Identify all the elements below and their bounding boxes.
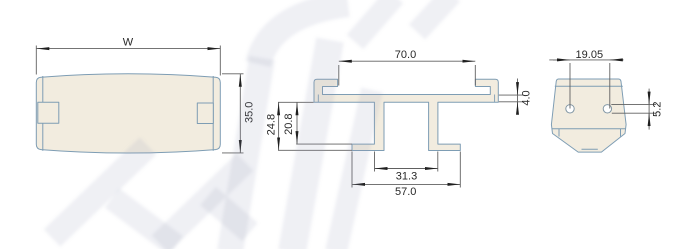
dimension 35.0 line with arrows: [239, 74, 241, 153]
watermark H crossbar: [112, 198, 176, 246]
svg-text:31.3: 31.3: [396, 171, 417, 183]
watermark H right bar: [160, 162, 245, 244]
dimension 19.05 right extension line: [609, 63, 611, 109]
right pin hole: [603, 105, 611, 113]
dimension 20.8 bottom extension line: [296, 143, 352, 145]
chain plate top view body: [36, 74, 220, 153]
watermark a tail: [208, 196, 250, 232]
side view step line: [552, 128, 626, 130]
watermark a left stroke: [230, 58, 262, 249]
left pin hole: [566, 105, 574, 113]
dimension 31.3 line with arrows: [375, 168, 438, 170]
dimension 31.3 left extension line: [374, 152, 376, 172]
watermark stroke group: [52, 0, 452, 249]
dimension W line with arrows: [36, 48, 220, 50]
dimension 5.2 line: [648, 89, 650, 130]
watermark a top arc: [258, 4, 348, 64]
side view link body: [551, 79, 626, 152]
dimension 24.8 bottom extension line: [278, 149, 352, 151]
svg-text:57.0: 57.0: [395, 186, 416, 198]
dimension 5.2 lower arrow: [648, 113, 650, 127]
dimension 70.0 right extension line: [474, 65, 476, 86]
side view inner vertical right: [620, 129, 622, 137]
top view left hinge notch: [38, 102, 59, 123]
side view bottom inner line: [582, 148, 598, 150]
dimension W right extension line: [219, 46, 221, 76]
watermark i stem: [336, 90, 372, 249]
dimension 70.0 line with arrows: [339, 60, 476, 62]
dimension 19.05 left extension line: [569, 63, 571, 109]
cross-section profile outline: [314, 79, 498, 150]
dimension 57.0 right extension line: [459, 152, 461, 188]
dimension 5.2 upper arrow: [648, 91, 650, 105]
cross-section plate end tick left: [317, 95, 319, 103]
watermark H left bar: [52, 146, 148, 238]
dimension 57.0 left extension line: [351, 152, 353, 188]
svg-text:19.05: 19.05: [576, 49, 604, 61]
dimension 70.0 left extension line: [338, 65, 340, 86]
dimension 4.0 upper arrow: [517, 82, 519, 95]
svg-text:24.8: 24.8: [266, 114, 278, 135]
dimension 35.0 bottom extension line: [222, 152, 244, 154]
dimension 20.8 line with arrows: [296, 102, 298, 144]
dimension 57.0 line with arrows: [352, 183, 460, 185]
svg-text:5.2: 5.2: [652, 102, 664, 117]
cross-section plate end tick right: [494, 95, 496, 103]
dimension 35.0 top extension line: [222, 73, 244, 75]
dimension 4.0 lower arrow: [517, 102, 519, 111]
dimension 19.05 line: [549, 59, 621, 61]
watermark a stem: [292, 40, 330, 249]
svg-text:W: W: [123, 36, 134, 48]
side view top band line: [555, 85, 623, 87]
watermark r stroke: [355, 0, 395, 42]
top view right inner edge line: [212, 76, 214, 151]
svg-text:20.8: 20.8: [283, 113, 295, 134]
svg-text:4.0: 4.0: [521, 90, 533, 105]
dimension 24.8 line with arrows: [278, 102, 280, 150]
dimension 5.2 bottom extension line: [612, 112, 656, 114]
dimension 4.0 bottom extension line: [499, 101, 523, 103]
dimension W left extension line: [35, 46, 37, 75]
top view right hinge notch: [197, 103, 213, 124]
svg-text:70.0: 70.0: [395, 49, 416, 61]
watermark i top stroke: [417, 0, 452, 32]
dimension 19.05 left arrow: [553, 59, 570, 61]
dimension 4.0 top extension line: [499, 94, 523, 96]
dimension 4.0 line: [517, 79, 519, 113]
dimension 31.3 right extension line: [437, 152, 439, 172]
top view left inner edge line: [42, 76, 44, 151]
dimension 19.05 right arrow: [610, 59, 624, 61]
dimension 24.8 top extension line: [278, 101, 314, 103]
side view inner vertical left: [558, 129, 560, 137]
dimension 5.2 top extension line: [611, 104, 656, 106]
